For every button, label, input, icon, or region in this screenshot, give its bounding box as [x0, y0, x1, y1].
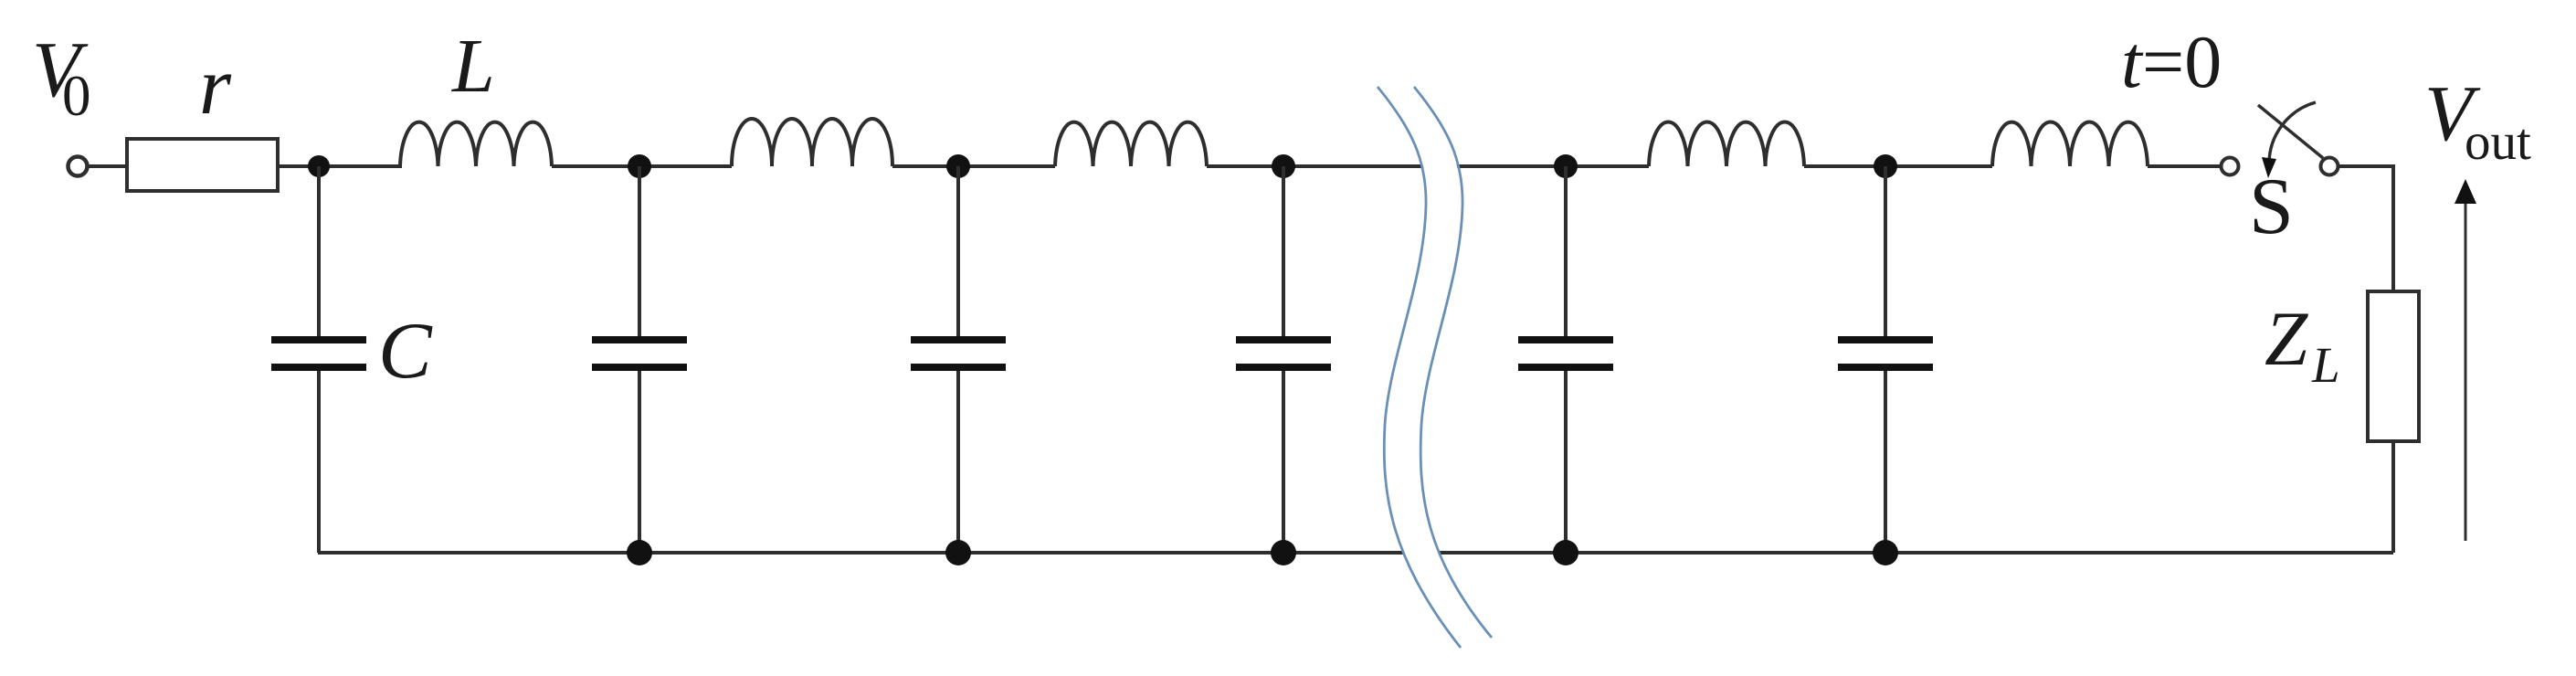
- break squiggle right blue line: [1414, 87, 1492, 638]
- inductor L5: [1992, 122, 2148, 166]
- capacitor C2: [592, 166, 687, 553]
- svg-text:S: S: [2249, 163, 2294, 251]
- svg-text:r: r: [199, 41, 232, 132]
- node 3 junction dot: [946, 154, 970, 178]
- wire load to bottom rail: [2391, 441, 2395, 553]
- svg-text:t: t: [2121, 20, 2144, 103]
- capacitor C6: [1838, 166, 1933, 553]
- capacitor C3: [911, 166, 1006, 553]
- wire L3 across break to L4: [1207, 164, 1649, 168]
- wire L2 to L3: [892, 164, 1055, 168]
- wire input to resistor: [88, 164, 127, 168]
- svg-text:L: L: [2311, 337, 2340, 393]
- node 2 junction dot: [628, 154, 651, 178]
- bottom junction dot 6: [1873, 540, 1898, 565]
- label Vout: [2424, 69, 2531, 171]
- bottom junction dot 2: [627, 540, 652, 565]
- bottom rail wire: [318, 551, 2393, 555]
- switch terminal left: [2222, 158, 2239, 175]
- svg-text:0: 0: [62, 64, 91, 128]
- label t=0: [2121, 20, 2222, 103]
- svg-text:Z: Z: [2265, 296, 2308, 382]
- Vout arrow: [2455, 179, 2476, 541]
- node 6 junction dot: [1874, 154, 1897, 178]
- wire switch to corner: [2339, 166, 2393, 291]
- label V0: [32, 25, 91, 128]
- wire L5 to switch: [2148, 164, 2220, 168]
- load ZL: [2265, 291, 2419, 441]
- bottom junction dot 5: [1553, 540, 1578, 565]
- wire resistor to inductor L: [278, 164, 402, 168]
- wire L1 to L2: [552, 164, 732, 168]
- node 1 junction dot: [308, 155, 330, 177]
- node 5 junction dot: [1554, 154, 1578, 178]
- switch motion arrowhead: [2262, 157, 2276, 178]
- svg-text:L: L: [451, 24, 495, 109]
- switch motion arc: [2269, 102, 2316, 164]
- break squiggle left blue line: [1378, 87, 1461, 648]
- capacitor C1: [271, 166, 433, 553]
- wire L4 to L5: [1804, 164, 1992, 168]
- switch blade: [2258, 105, 2323, 158]
- svg-text:C: C: [378, 307, 433, 396]
- node 4 junction dot: [1272, 154, 1295, 178]
- inductor L4: [1649, 122, 1804, 166]
- svg-text:=0: =0: [2142, 20, 2222, 103]
- capacitor C4: [1236, 166, 1331, 553]
- resistor r: [127, 41, 278, 191]
- inductor L1: [400, 24, 552, 166]
- break squiggle white gap: [1396, 87, 1479, 648]
- input terminal: [69, 157, 88, 176]
- svg-text:out: out: [2465, 113, 2531, 171]
- bottom junction dot 3: [945, 540, 971, 565]
- bottom junction dot 4: [1271, 540, 1296, 565]
- inductor L2: [732, 119, 892, 166]
- inductor L3: [1055, 122, 1207, 166]
- switch terminal right: [2321, 158, 2338, 175]
- capacitor C5: [1518, 166, 1613, 553]
